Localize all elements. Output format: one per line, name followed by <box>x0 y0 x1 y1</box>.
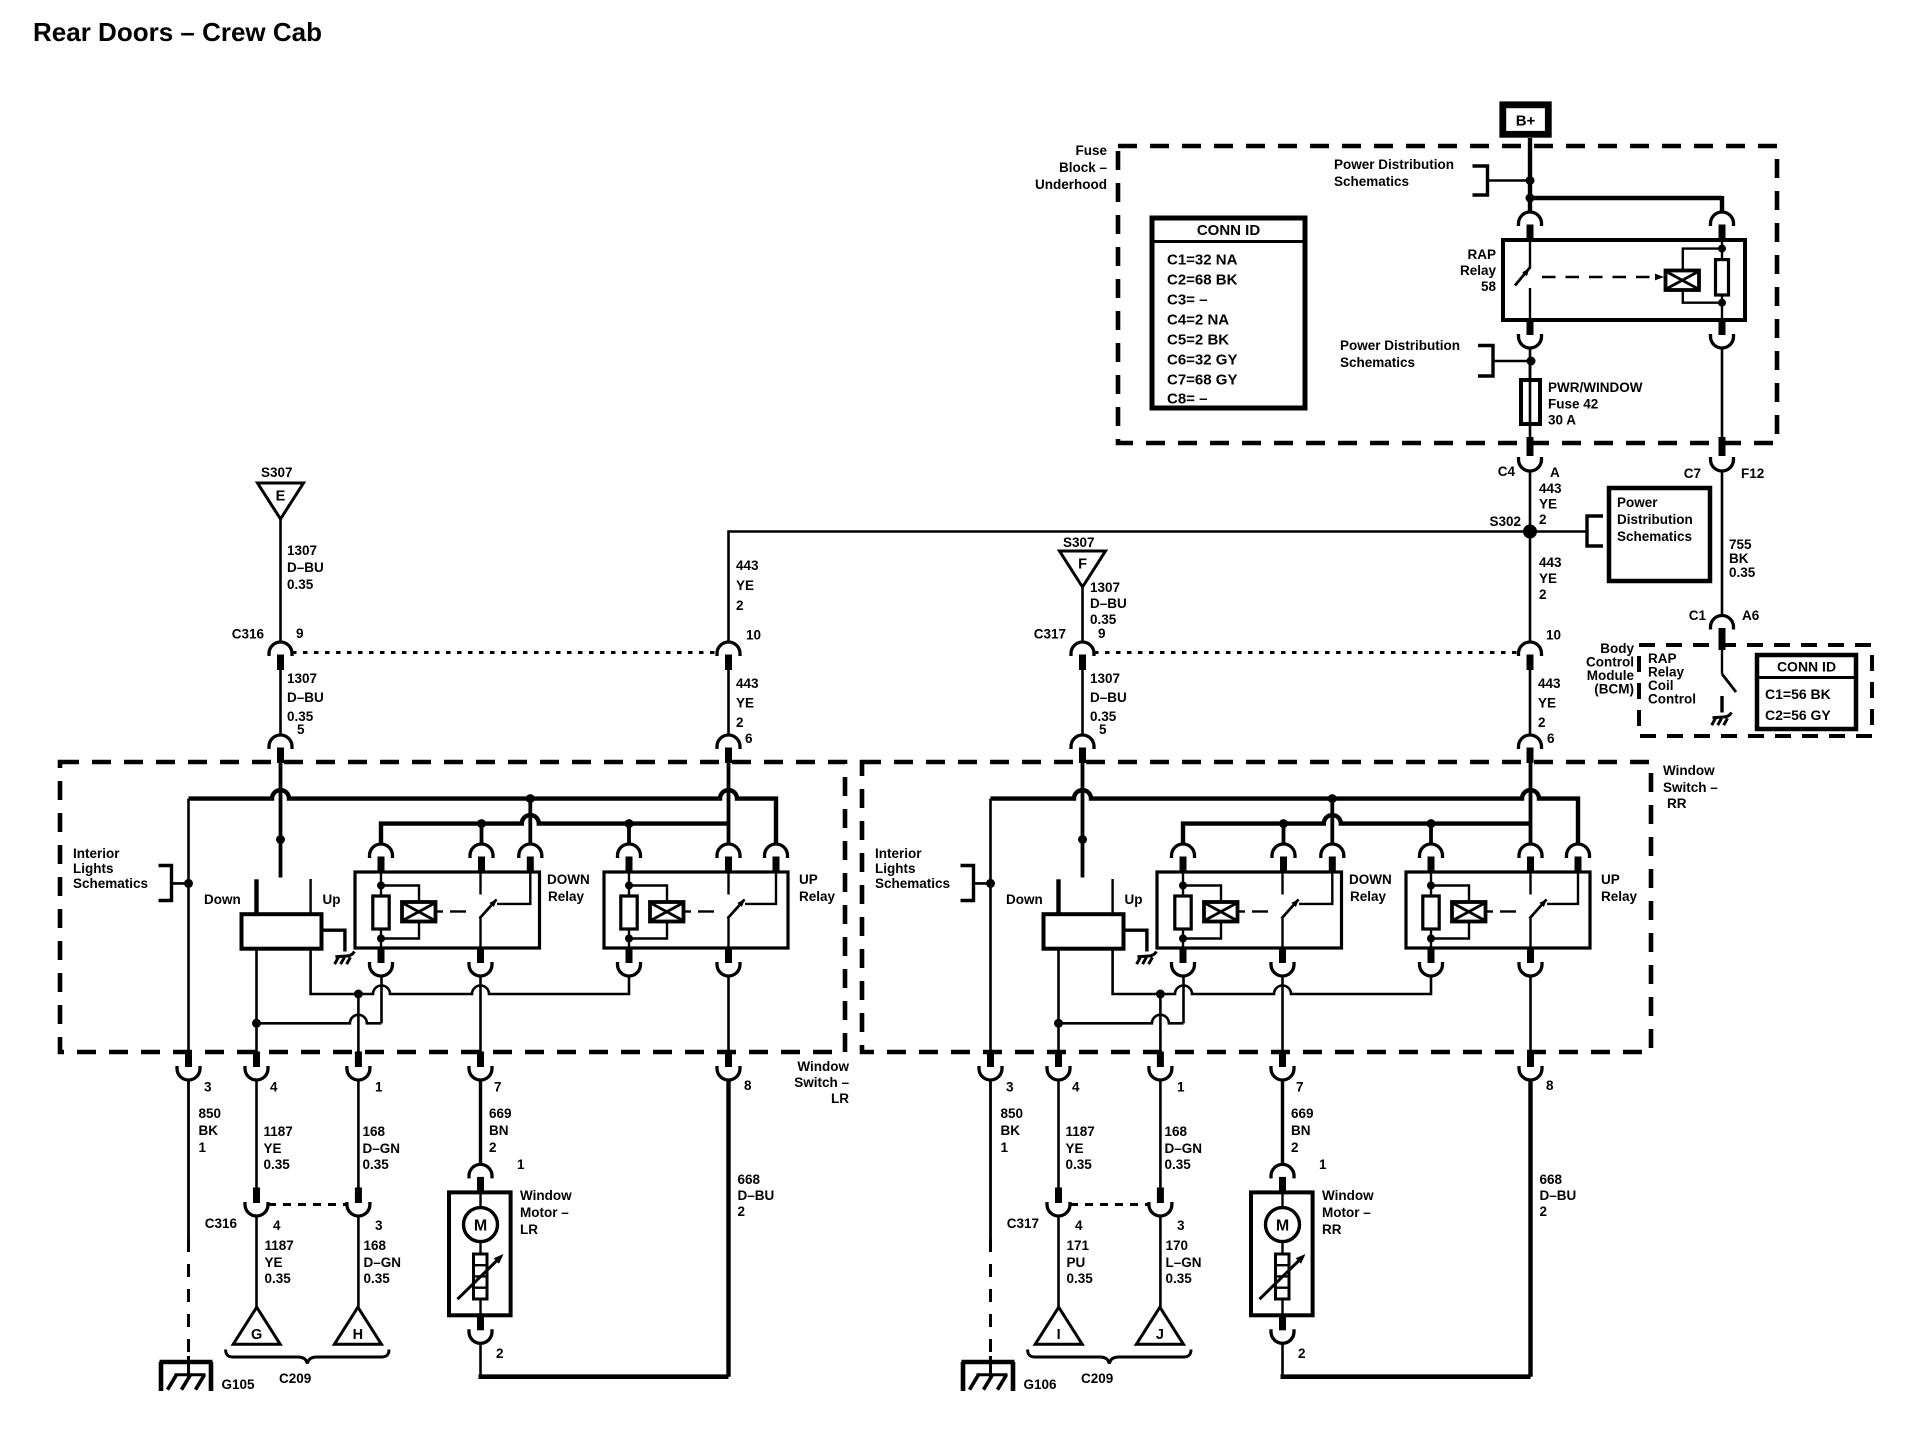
svg-text:1187: 1187 <box>265 1238 294 1253</box>
connector C317 pin 3 <box>1149 1188 1185 1234</box>
wire 1307 D-BU (C316 to switch LR) <box>279 670 282 736</box>
relay UP (LR) coil <box>621 872 714 948</box>
svg-text:5: 5 <box>297 722 305 737</box>
label 1307 D-BU 0.35 (E upper) <box>287 543 324 592</box>
label 443 YE 2 (below C4) <box>1539 481 1562 527</box>
connector C316 pin 3 <box>347 1188 383 1234</box>
svg-text:D–BU: D–BU <box>1090 690 1127 705</box>
wire 1307 D-BU (C317 to switch RR) <box>1081 670 1084 736</box>
svg-text:0.35: 0.35 <box>1166 1271 1193 1286</box>
svg-text:Switch –: Switch – <box>794 1075 849 1090</box>
label 168 D-GN lower (LR) <box>364 1238 402 1286</box>
svg-text:C316: C316 <box>232 627 265 642</box>
svg-text:9: 9 <box>296 626 304 641</box>
svg-text:9: 9 <box>1098 626 1106 641</box>
label 850 BK 1 (RR) <box>1001 1106 1024 1155</box>
window motor LR <box>449 1192 511 1315</box>
wire pin8 upper (RR) <box>1529 976 1532 1052</box>
svg-text:2: 2 <box>1539 587 1547 602</box>
wire 171 PU (RR) <box>1057 1215 1060 1307</box>
svg-text:PU: PU <box>1067 1255 1086 1270</box>
svg-text:755: 755 <box>1729 537 1752 552</box>
svg-text:DOWN: DOWN <box>1349 872 1392 887</box>
connector C317 pin 4 <box>1047 1188 1083 1234</box>
wire pin7 (RR) <box>1281 976 1284 1052</box>
connector pins relay bottoms (RR) <box>1172 948 1543 977</box>
svg-text:2: 2 <box>1291 1140 1299 1155</box>
connector motor pin 1 (LR) <box>469 1157 525 1192</box>
svg-text:S302: S302 <box>1489 514 1521 529</box>
ground triangle G <box>233 1307 280 1344</box>
svg-text:170: 170 <box>1166 1238 1189 1253</box>
connector pin 6 (RR) <box>1519 731 1556 763</box>
wire RAP relay to C7 <box>1721 349 1724 438</box>
connector C316 pin 9 <box>232 626 304 670</box>
svg-text:2: 2 <box>738 1204 746 1219</box>
svg-text:A: A <box>1550 465 1560 480</box>
splice S307 F <box>1060 535 1106 587</box>
svg-text:YE: YE <box>1066 1141 1084 1156</box>
svg-text:G106: G106 <box>1024 1377 1058 1392</box>
svg-text:10: 10 <box>746 628 761 643</box>
svg-text:Relay: Relay <box>1460 263 1497 278</box>
wire S302 down to connector 10 (RR) <box>1529 532 1532 644</box>
wire 668 D-BU (LR) <box>726 1079 730 1377</box>
svg-text:Down: Down <box>204 892 241 907</box>
wire 168 D-GN upper (RR) <box>1159 1079 1162 1188</box>
wire pin4 (RR) <box>1057 949 1060 1052</box>
svg-text:0.35: 0.35 <box>364 1271 391 1286</box>
label 1307 D-BU 0.35 (F upper) <box>1090 580 1127 627</box>
svg-text:5: 5 <box>1099 722 1107 737</box>
relay DOWN (LR) coil <box>373 872 466 948</box>
wire 1187 YE upper (RR) <box>1057 1079 1060 1188</box>
svg-text:668: 668 <box>1540 1172 1563 1187</box>
power distribution schematics box <box>1609 488 1710 581</box>
svg-text:BK: BK <box>199 1123 219 1138</box>
svg-text:Relay: Relay <box>548 889 585 904</box>
svg-text:0.35: 0.35 <box>1066 1157 1093 1172</box>
wire 669 BN (pin7 to motor) (RR) <box>1281 1079 1284 1165</box>
svg-text:F: F <box>1078 557 1087 573</box>
svg-text:M: M <box>1276 1218 1289 1235</box>
wire up-contact link (RR) <box>1113 949 1431 999</box>
svg-text:0.35: 0.35 <box>1729 565 1756 580</box>
label 443 YE 2 (LR lower) <box>736 676 759 730</box>
relay RAP 58 <box>1503 212 1745 348</box>
svg-text:B+: B+ <box>1516 113 1536 130</box>
svg-text:F12: F12 <box>1741 466 1764 481</box>
wire B+ to RAP relay <box>1526 138 1723 213</box>
connector pin 5 (window switch LR) <box>269 722 305 763</box>
svg-text:1: 1 <box>1177 1080 1185 1095</box>
ground triangle J <box>1136 1307 1183 1344</box>
svg-text:1: 1 <box>1319 1157 1327 1172</box>
wire pin6 to relay bus (RR) <box>1529 763 1533 846</box>
svg-text:0.35: 0.35 <box>1067 1271 1094 1286</box>
svg-text:850: 850 <box>199 1106 222 1121</box>
svg-text:I: I <box>1057 1327 1061 1343</box>
svg-text:J: J <box>1156 1327 1164 1343</box>
svg-text:0.35: 0.35 <box>1165 1157 1192 1172</box>
label RAP relay coil control <box>1648 651 1696 707</box>
svg-text:RR: RR <box>1667 796 1687 811</box>
svg-text:C2=56 GY: C2=56 GY <box>1765 707 1831 723</box>
svg-text:BK: BK <box>1001 1123 1021 1138</box>
svg-text:443: 443 <box>1539 555 1562 570</box>
svg-text:1: 1 <box>1001 1140 1009 1155</box>
svg-text:1307: 1307 <box>287 671 317 686</box>
svg-text:1187: 1187 <box>1066 1124 1095 1139</box>
label window switch RR <box>1663 763 1718 811</box>
svg-text:0.35: 0.35 <box>287 577 314 592</box>
wire pin7 (LR) <box>479 976 482 1052</box>
ground triangle I <box>1035 1307 1082 1344</box>
label connector C317 <box>1007 1216 1039 1231</box>
svg-text:669: 669 <box>489 1106 512 1121</box>
relay DOWN (RR) coil <box>1175 872 1268 948</box>
svg-text:Power Distribution: Power Distribution <box>1340 338 1460 353</box>
svg-text:DOWN: DOWN <box>547 872 590 887</box>
svg-text:D–GN: D–GN <box>363 1141 401 1156</box>
relay DOWN (LR) box <box>355 872 540 948</box>
svg-text:Power: Power <box>1617 495 1658 510</box>
svg-text:Up: Up <box>323 892 341 907</box>
svg-text:Window: Window <box>797 1059 849 1074</box>
connector C4 pin A <box>1498 437 1560 480</box>
svg-text:C209: C209 <box>1081 1371 1113 1386</box>
svg-text:0.35: 0.35 <box>363 1157 390 1172</box>
wire 1187 YE upper (LR) <box>255 1079 258 1188</box>
label 171 PU (RR) <box>1067 1238 1094 1286</box>
svg-text:D–BU: D–BU <box>1090 596 1127 611</box>
svg-text:2: 2 <box>1540 1204 1548 1219</box>
ground (rocker RR) <box>1137 952 1157 965</box>
svg-text:1: 1 <box>517 1157 525 1172</box>
svg-text:BK: BK <box>1729 551 1749 566</box>
svg-text:8: 8 <box>1546 1078 1554 1093</box>
svg-text:H: H <box>353 1327 363 1343</box>
label PWR/WINDOW fuse 42 30A <box>1548 380 1643 428</box>
svg-text:1307: 1307 <box>1090 580 1120 595</box>
wire pin8 upper (LR) <box>727 976 730 1052</box>
wire motor return (RR) <box>1281 1343 1531 1377</box>
svg-text:YE: YE <box>264 1141 282 1156</box>
svg-text:CONN ID: CONN ID <box>1777 659 1836 675</box>
svg-text:Down: Down <box>1006 892 1043 907</box>
svg-text:Schematics: Schematics <box>1334 174 1409 189</box>
relay UP (LR) box <box>604 872 788 948</box>
svg-text:D–BU: D–BU <box>1540 1188 1577 1203</box>
label 168 D-GN 0.35 upper (RR) <box>1165 1124 1203 1172</box>
svg-text:D–BU: D–BU <box>287 690 324 705</box>
svg-text:Underhood: Underhood <box>1035 177 1107 192</box>
wire pin1 (LR) <box>357 994 360 1052</box>
svg-text:M: M <box>474 1218 487 1235</box>
svg-text:10: 10 <box>1546 628 1561 643</box>
label UP relay (RR) <box>1601 872 1638 904</box>
svg-text:0.35: 0.35 <box>264 1157 291 1172</box>
wire 170 L-GN (RR) <box>1159 1215 1162 1307</box>
window switch RR dashed box <box>862 762 1651 1052</box>
svg-text:A6: A6 <box>1742 608 1760 623</box>
svg-text:2: 2 <box>489 1140 497 1155</box>
wire 168 D-GN lower (LR) <box>357 1215 360 1307</box>
wire top bus (RR) <box>991 790 1579 844</box>
relay UP (RR) switch <box>1530 872 1579 948</box>
svg-text:669: 669 <box>1291 1106 1314 1121</box>
svg-text:1187: 1187 <box>264 1124 293 1139</box>
wire pin5 to rocker (LR) <box>276 763 285 878</box>
svg-text:8: 8 <box>744 1078 752 1093</box>
svg-text:D–BU: D–BU <box>287 560 324 575</box>
label 669 BN 2 (RR) <box>1291 1106 1314 1155</box>
wire 443 YE (pin10 to pin6 RR) <box>1529 670 1532 736</box>
wire 755 BK <box>1721 470 1724 617</box>
label 755 BK 0.35 <box>1729 537 1756 580</box>
svg-text:Fuse 42: Fuse 42 <box>1548 397 1598 412</box>
svg-text:C2=68 BK: C2=68 BK <box>1167 272 1238 289</box>
wire 1307 D-BU (S307 F to C317) <box>1081 587 1084 643</box>
relay DOWN (LR) switch <box>480 872 531 948</box>
svg-text:C317: C317 <box>1034 627 1066 642</box>
svg-text:Relay: Relay <box>1601 889 1638 904</box>
svg-text:C8= –: C8= – <box>1167 391 1207 408</box>
wire 1187 YE lower (LR) <box>255 1215 258 1307</box>
wire down-coil link (RR) <box>1054 976 1184 1028</box>
svg-text:Schematics: Schematics <box>875 876 950 891</box>
wire S302 to window switch LR <box>729 532 1531 644</box>
connector line C316 (dashed) <box>268 1203 347 1206</box>
wire pin3 (LR) <box>187 799 190 1052</box>
svg-text:2: 2 <box>736 598 744 613</box>
svg-text:S307: S307 <box>261 465 293 480</box>
BCM rap relay coil control switch <box>1722 650 1736 713</box>
relay UP (RR) box <box>1406 872 1590 948</box>
bracket S302 to power distribution schematics box <box>1530 516 1603 546</box>
svg-text:1: 1 <box>375 1080 383 1095</box>
svg-text:171: 171 <box>1067 1238 1090 1253</box>
svg-text:UP: UP <box>1601 872 1620 887</box>
svg-text:850: 850 <box>1001 1106 1024 1121</box>
svg-text:Block –: Block – <box>1059 160 1108 175</box>
wire pin5 to rocker (RR) <box>1078 763 1087 878</box>
svg-text:Motor –: Motor – <box>520 1205 569 1220</box>
svg-text:YE: YE <box>736 578 754 593</box>
svg-text:4: 4 <box>270 1080 278 1095</box>
label 1307 D-BU 0.35 (F lower) <box>1090 671 1127 724</box>
svg-text:2: 2 <box>1298 1346 1306 1361</box>
svg-text:YE: YE <box>1539 497 1557 512</box>
svg-text:BN: BN <box>1291 1123 1311 1138</box>
svg-text:Interior: Interior <box>875 846 922 861</box>
svg-text:YE: YE <box>736 696 754 711</box>
relay DOWN (RR) switch <box>1282 872 1333 948</box>
label fuse block underhood <box>1035 143 1107 192</box>
svg-text:3: 3 <box>1177 1218 1185 1233</box>
svg-text:C209: C209 <box>279 1371 311 1386</box>
svg-text:Schematics: Schematics <box>1340 355 1415 370</box>
connector pin 10 (LR) <box>717 628 761 671</box>
svg-text:C7=68 GY: C7=68 GY <box>1167 372 1237 389</box>
svg-text:168: 168 <box>1165 1124 1188 1139</box>
svg-text:YE: YE <box>1539 571 1557 586</box>
svg-text:6: 6 <box>745 731 753 746</box>
label 1307 D-BU 0.35 (E lower) <box>287 671 324 724</box>
svg-text:1307: 1307 <box>287 543 317 558</box>
svg-text:0.35: 0.35 <box>265 1271 292 1286</box>
svg-text:3: 3 <box>375 1218 383 1233</box>
label 443 YE 2 (below S302) <box>1539 555 1562 602</box>
svg-text:2: 2 <box>736 715 744 730</box>
switch window rocker (RR) <box>1006 879 1147 952</box>
label DOWN relay (RR) <box>1349 872 1392 904</box>
wire 443 YE C4 to S302 <box>1529 470 1532 525</box>
label 669 BN 2 (LR) <box>489 1106 512 1155</box>
svg-text:Schematics: Schematics <box>73 876 148 891</box>
svg-text:LR: LR <box>520 1222 538 1237</box>
svg-text:D–GN: D–GN <box>1165 1141 1203 1156</box>
svg-text:Window: Window <box>1663 763 1715 778</box>
connector table CONN ID (BCM) <box>1757 655 1856 729</box>
wire 850 BK (LR) <box>187 1079 190 1376</box>
connector motor pin 2 (LR) <box>469 1315 504 1361</box>
svg-text:C6=32 GY: C6=32 GY <box>1167 352 1237 369</box>
label 668 D-BU 2 (LR) <box>738 1172 775 1219</box>
svg-text:G105: G105 <box>222 1377 256 1392</box>
label connector C316 <box>205 1216 238 1231</box>
title Rear Doors - Crew Cab <box>33 17 322 47</box>
switch window rocker (LR) <box>204 879 345 952</box>
svg-text:C5=2 BK: C5=2 BK <box>1167 332 1229 349</box>
svg-text:C316: C316 <box>205 1216 238 1231</box>
svg-text:C1=32 NA: C1=32 NA <box>1167 252 1238 269</box>
svg-text:3: 3 <box>204 1080 212 1095</box>
wire 443 YE (pin10 to pin6 LR) <box>727 670 730 736</box>
label 850 BK 1 (LR) <box>199 1106 222 1155</box>
svg-text:0.35: 0.35 <box>1090 612 1117 627</box>
svg-text:443: 443 <box>1539 481 1562 496</box>
connector brace C209 (right) <box>1028 1350 1191 1387</box>
svg-text:L–GN: L–GN <box>1166 1255 1202 1270</box>
ground triangle H <box>334 1307 381 1344</box>
svg-text:YE: YE <box>1538 696 1556 711</box>
svg-text:G: G <box>251 1327 262 1343</box>
node interior lights junction (RR) <box>986 879 995 888</box>
svg-text:2: 2 <box>496 1346 504 1361</box>
ground (BCM internal) <box>1712 713 1732 726</box>
connector pin 5 (window switch RR) <box>1071 722 1107 763</box>
label window motor LR <box>520 1188 572 1237</box>
svg-text:443: 443 <box>736 676 759 691</box>
svg-text:443: 443 <box>736 558 759 573</box>
svg-text:4: 4 <box>273 1218 281 1233</box>
window motor RR <box>1251 1192 1313 1315</box>
battery terminal B+ <box>1503 105 1549 135</box>
svg-text:168: 168 <box>364 1238 387 1253</box>
connector line C316 (dotted) <box>292 651 716 654</box>
svg-text:C3= –: C3= – <box>1167 292 1207 309</box>
label 170 L-GN (RR) <box>1166 1238 1202 1286</box>
svg-text:Switch –: Switch – <box>1663 780 1718 795</box>
svg-text:Schematics: Schematics <box>1617 529 1692 544</box>
svg-text:S307: S307 <box>1063 535 1095 550</box>
svg-text:4: 4 <box>1072 1080 1080 1095</box>
label UP relay (LR) <box>799 872 836 904</box>
svg-text:UP: UP <box>799 872 818 887</box>
connector motor pin 2 (RR) <box>1271 1315 1306 1361</box>
connector C317 pin 9 <box>1034 626 1106 670</box>
connector pins relay tops (RR) <box>1172 844 1590 872</box>
svg-text:Relay: Relay <box>1350 889 1387 904</box>
connector line C317 (dashed) <box>1070 1203 1149 1206</box>
wire relay feed bus (RR) <box>1183 815 1531 844</box>
label DOWN relay (LR) <box>547 872 590 904</box>
label 443 YE 2 (LR drop) <box>736 558 759 613</box>
svg-text:C1=56 BK: C1=56 BK <box>1765 686 1831 702</box>
wire top bus (LR) <box>189 790 777 844</box>
svg-text:D–BU: D–BU <box>738 1188 775 1203</box>
svg-text:D–GN: D–GN <box>364 1255 402 1270</box>
svg-text:7: 7 <box>494 1080 502 1095</box>
wire 850 BK (RR) <box>989 1079 992 1376</box>
svg-text:Motor –: Motor – <box>1322 1205 1371 1220</box>
svg-text:RR: RR <box>1322 1222 1342 1237</box>
svg-text:Power Distribution: Power Distribution <box>1334 157 1454 172</box>
wire 668 D-BU (RR) <box>1528 1079 1532 1377</box>
svg-text:Lights: Lights <box>73 861 114 876</box>
connector pin 10 (RR) <box>1519 628 1562 671</box>
body control module dashed box <box>1639 645 1872 736</box>
label 668 D-BU 2 (RR) <box>1540 1172 1577 1219</box>
label 168 D-GN 0.35 upper (LR) <box>363 1124 401 1172</box>
svg-text:E: E <box>276 489 286 505</box>
label 1187 YE lower (LR) <box>265 1238 294 1286</box>
svg-text:Distribution: Distribution <box>1617 512 1693 527</box>
svg-text:30 A: 30 A <box>1548 413 1576 428</box>
connector C7 pin F12 <box>1684 437 1765 481</box>
connector C1 pin A6 <box>1689 608 1760 650</box>
svg-text:PWR/WINDOW: PWR/WINDOW <box>1548 380 1643 395</box>
svg-text:Interior: Interior <box>73 846 120 861</box>
ground G105 <box>160 1356 256 1392</box>
svg-text:(BCM): (BCM) <box>1594 682 1634 697</box>
label body control module (BCM) <box>1586 641 1634 697</box>
wire 1307 D-BU (S307 E to C316) <box>279 519 282 643</box>
svg-text:Window: Window <box>520 1188 572 1203</box>
node interior lights junction (LR) <box>184 879 193 888</box>
label power distribution schematics (top) with bracket <box>1334 157 1530 195</box>
connector pins switch bottom (RR) <box>979 1052 1554 1095</box>
wire pin6 to relay bus (LR) <box>727 763 731 846</box>
svg-text:6: 6 <box>1547 731 1555 746</box>
wire pin1 (RR) <box>1159 994 1162 1052</box>
svg-text:C7: C7 <box>1684 466 1701 481</box>
label interior lights schematics (LR) with bracket <box>73 846 189 901</box>
wire pin3 (RR) <box>989 799 992 1052</box>
connector pins relay bottoms (LR) <box>370 948 741 977</box>
splice S307 E <box>258 465 304 519</box>
ground G106 <box>962 1356 1058 1392</box>
connector pins relay tops (LR) <box>370 844 788 872</box>
svg-text:Relay: Relay <box>799 889 836 904</box>
svg-text:Control: Control <box>1648 692 1696 707</box>
connector motor pin 1 (RR) <box>1271 1157 1327 1192</box>
wire relay feed bus (LR) <box>381 815 729 844</box>
connector table CONN ID (fuse block) <box>1152 218 1305 408</box>
wire motor return (LR) <box>479 1343 729 1377</box>
label power distribution schematics (mid) with bracket <box>1340 338 1530 376</box>
